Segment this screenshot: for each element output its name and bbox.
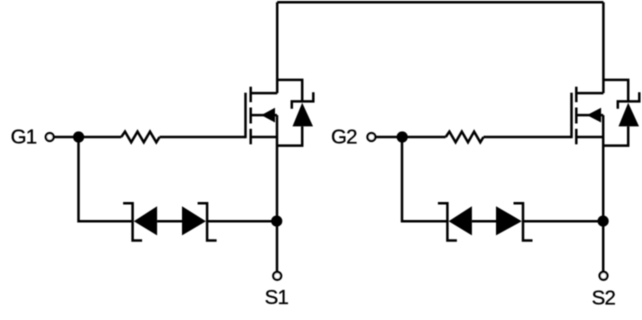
svg-text:S2: S2 (592, 286, 616, 309)
svg-text:S1: S1 (265, 286, 289, 309)
svg-text:G2: G2 (331, 126, 357, 149)
svg-text:G1: G1 (11, 126, 37, 149)
